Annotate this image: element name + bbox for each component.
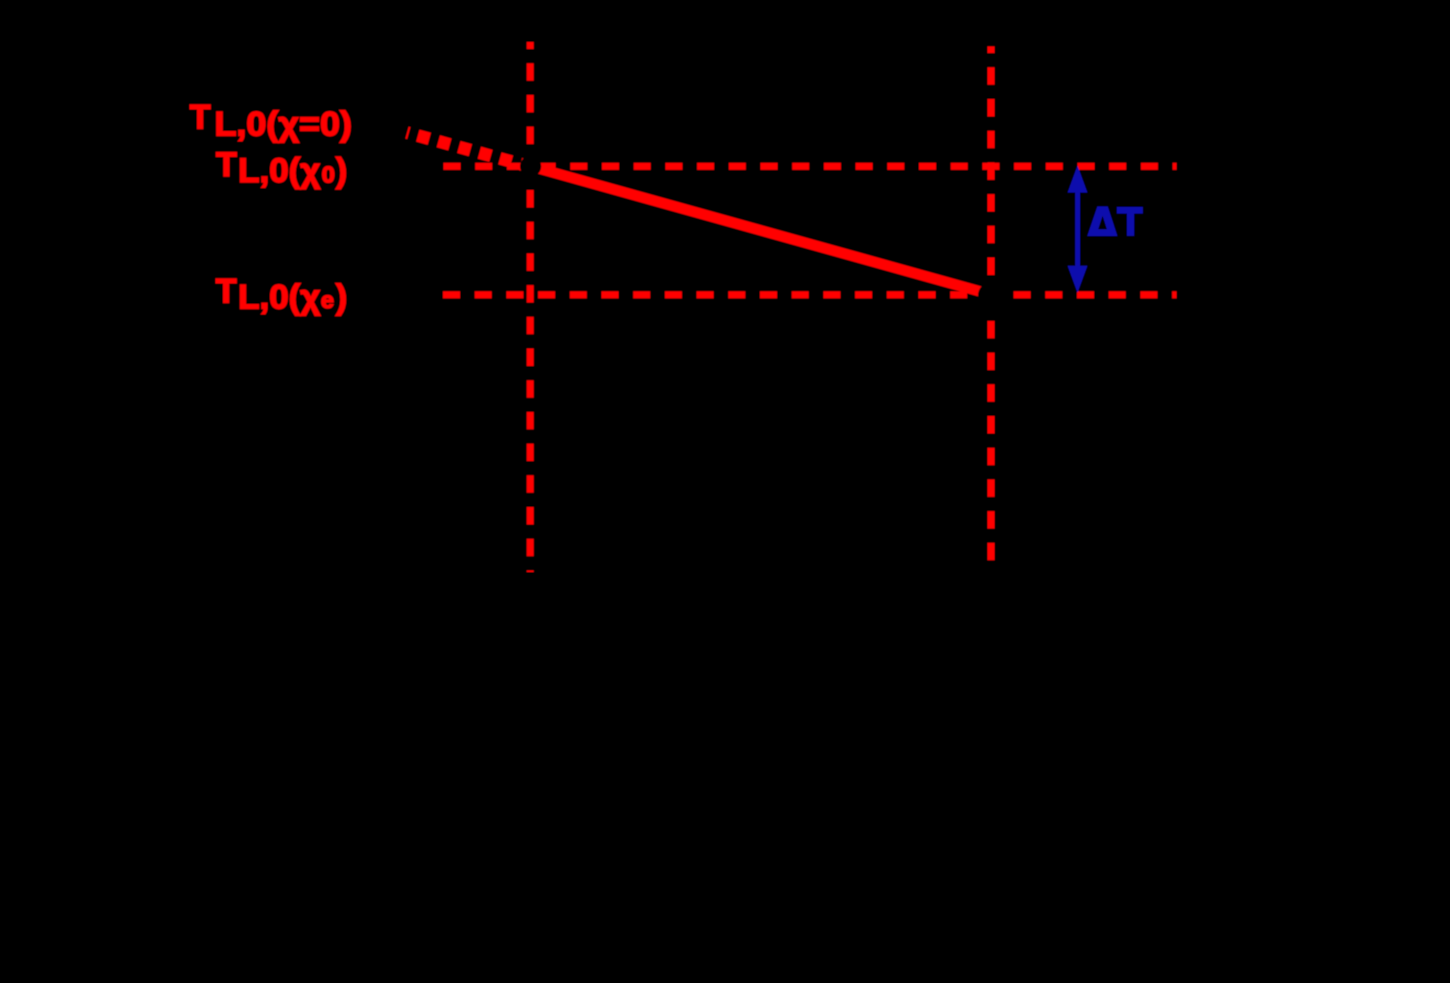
horizontal dashed line at TL,0(xe) bbox=[443, 291, 1177, 298]
svg-text:L,0(χ=0): L,0(χ=0) bbox=[215, 105, 352, 143]
label TL,0(xe) bbox=[216, 273, 348, 317]
label TL,0(x0) bbox=[216, 146, 347, 190]
solid liquidus line bbox=[532, 167, 989, 294]
blue double-headed arrow bbox=[1068, 166, 1088, 293]
black data-point marker hiding lines at xe junction bbox=[978, 282, 1004, 308]
svg-text:0: 0 bbox=[322, 162, 335, 188]
black data-point marker hiding lines at x0 junction bbox=[520, 156, 541, 177]
horizontal dashed line at TL,0(x0) bbox=[444, 163, 1177, 170]
thick dashed extrapolation segment bbox=[407, 133, 531, 167]
svg-text:T: T bbox=[190, 98, 211, 136]
svg-text:L,0(χ: L,0(χ bbox=[238, 278, 321, 316]
svg-text:T: T bbox=[216, 146, 237, 184]
label dT bbox=[1087, 206, 1143, 236]
svg-text:): ) bbox=[336, 278, 347, 316]
label TL,0(x=0) bbox=[190, 98, 352, 143]
svg-text:T: T bbox=[216, 273, 237, 311]
svg-text:): ) bbox=[336, 152, 347, 190]
svg-text:L,0(χ: L,0(χ bbox=[238, 152, 321, 190]
svg-text:e: e bbox=[321, 287, 334, 313]
vertical dashed guide line at xe bbox=[988, 46, 995, 560]
vertical dashed guide line at x0 bbox=[527, 42, 534, 572]
